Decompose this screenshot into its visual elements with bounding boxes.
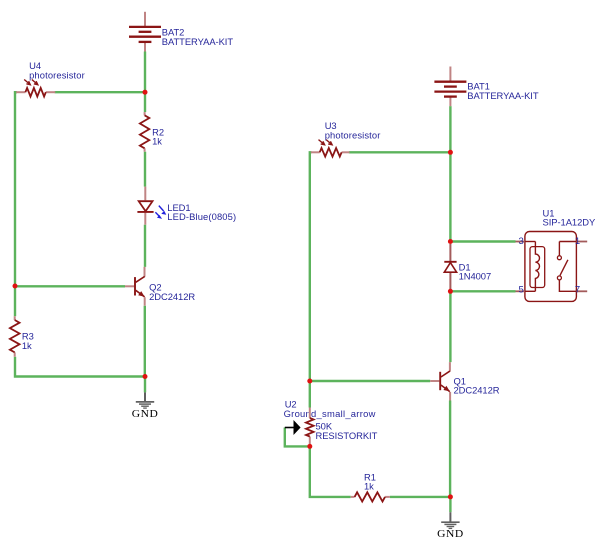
svg-text:1k: 1k [22,340,32,351]
wire: Q1 emitter down to node H [449,401,451,497]
svg-text:1k: 1k [152,136,162,147]
svg-text:BATTERYAA-KIT: BATTERYAA-KIT [467,90,539,101]
svg-text:1k: 1k [364,481,374,492]
node H junction dot [448,494,453,499]
ground (right) [437,512,464,540]
photoresistor U4 [16,60,85,96]
wire: node A to photoresistor U4 right pin [55,91,144,93]
svg-text:photoresistor: photoresistor [29,69,85,80]
wire: LED1 cathode to Q2 collector [144,225,146,267]
svg-text:2DC2412R: 2DC2412R [149,291,195,302]
wire: node B to Q2 base [15,285,125,287]
resistor 50K RESISTORKIT [306,408,378,445]
transistor Q1 [430,362,500,400]
wire: node H to ground [449,497,451,512]
wire: left rail from U4 left pin down to node B [15,92,17,286]
svg-text:Ground_small_arrow: Ground_small_arrow [284,408,376,419]
svg-text:2DC2412R: 2DC2412R [454,385,500,396]
svg-text:5: 5 [519,285,524,296]
node D junction dot [448,150,453,155]
wire: U3 left pin down the left rail to 50K resistor [310,152,312,407]
node F junction dot [307,379,312,384]
resistor R2 1k [140,112,164,152]
battery BAT2 [129,12,233,52]
node A junction dot [143,90,148,95]
photoresistor U3 [311,120,381,157]
svg-text:SIP-1A12DY: SIP-1A12DY [543,217,596,228]
wire: U2 arrow pin elbow to node G [285,428,310,447]
wire: R2 bottom to LED1 anode [144,152,146,187]
node G junction dot [307,444,312,449]
svg-text:RESISTORKIT: RESISTORKIT [316,430,378,441]
wire: node E to relay pin 3 [450,240,515,242]
svg-text:GND: GND [132,408,159,419]
battery BAT1 [434,67,538,107]
svg-text:3: 3 [519,236,524,247]
wire: node D to photoresistor U3 right pin [349,151,450,153]
transistor Q2 [125,267,195,306]
svg-text:1: 1 [575,236,580,247]
resistor R1 1k [351,471,390,501]
wire: R1 right to node H [390,496,451,498]
svg-text:LED-Blue(0805): LED-Blue(0805) [167,211,236,222]
wire: diode node to relay pin 5 [450,290,515,292]
wire: node F to Q1 base [310,380,430,382]
svg-text:1N4007: 1N4007 [459,271,492,282]
wire: battery BAT1 down through node D to relay node E [449,106,451,241]
svg-text:GND: GND [437,528,464,539]
wire: node G down to R1 left [310,446,351,497]
relay U1 SIP-1A12DY [516,207,596,301]
wire: node C to ground [144,377,146,393]
svg-text:7: 7 [575,285,580,296]
svg-text:BATTERYAA-KIT: BATTERYAA-KIT [162,36,234,47]
wire: node B to R3 top [14,286,16,316]
diode D1 1N4007 [444,244,491,289]
node E junction dot (relay pin3 row) [448,239,453,244]
LED LED1 [137,187,236,225]
wire: battery BAT2 to node A / R2 top [144,52,146,113]
node C junction dot [143,374,148,379]
svg-text:photoresistor: photoresistor [325,129,381,140]
junction dot (relay pin5 row) [448,289,453,294]
resistor R3 1k [10,316,34,357]
node B junction dot [13,284,18,289]
ground (left) [132,392,159,419]
ground small arrow U2 [284,399,376,435]
wire: R3 bottom to bottom node C [15,357,145,377]
wire: diode bottom node to Q1 collector [449,291,451,362]
wire: Q2 emitter down to node C [144,306,146,377]
